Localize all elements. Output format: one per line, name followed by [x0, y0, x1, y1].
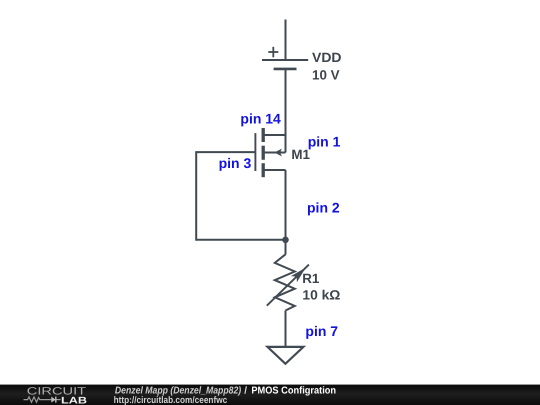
svg-text:10 V: 10 V [312, 67, 340, 82]
pin label pin 14 [240, 111, 281, 127]
body lead [265, 152, 286, 154]
wire: R1 bottom to ground [285, 311, 287, 348]
wire: battery - terminal down to M1 drain/body rail [285, 69, 287, 153]
channel segment bottom [262, 163, 265, 177]
svg-text:10 kΩ: 10 kΩ [302, 287, 340, 302]
CircuitLab logo: diode symbol [51, 397, 60, 403]
body arrow (points left) [274, 149, 282, 157]
transistor M1 (PMOS, 4-terminal) [255, 128, 285, 177]
svg-text:pin 2: pin 2 [307, 200, 340, 216]
CircuitLab logo: LAB wordmark [61, 395, 87, 405]
pin label pin 2 [307, 200, 340, 216]
wiper arrowhead [291, 268, 306, 283]
svg-text:VDD: VDD [312, 50, 342, 65]
footer title text: separator [244, 385, 247, 396]
node junction dot [282, 237, 289, 244]
source lead [265, 169, 286, 171]
svg-text:PMOS Configration: PMOS Configration [251, 385, 336, 396]
resistor R1 (variable, with wiper arrow) [267, 254, 309, 310]
wire: VDD top lead into battery + terminal [285, 20, 287, 61]
pin label pin 1 [308, 133, 341, 149]
plus sign [268, 51, 278, 53]
svg-text:http://circuitlab.com/ceenfwc: http://circuitlab.com/ceenfwc [114, 395, 228, 405]
long plate (+) [262, 59, 308, 61]
CircuitLab logo: resistor squiggle [24, 397, 52, 402]
ground [268, 347, 304, 364]
gate bar [254, 133, 256, 171]
label R1 [302, 271, 320, 286]
CircuitLab logo: CIRCUIT wordmark [27, 386, 87, 398]
label VDD [312, 50, 342, 65]
footer url text [114, 395, 228, 405]
channel segment middle [262, 146, 265, 160]
svg-text:M1: M1 [291, 147, 310, 162]
pin label pin 3 [219, 155, 252, 171]
battery V1 (VDD source) [262, 47, 308, 69]
wire: node to R1 top [285, 240, 287, 255]
wiper arrow line [267, 265, 309, 306]
drain lead [265, 134, 286, 136]
svg-text:pin 3: pin 3 [219, 155, 252, 171]
svg-text:R1: R1 [302, 271, 320, 286]
value 10 kOhm [302, 287, 340, 302]
svg-text:pin 7: pin 7 [305, 323, 338, 339]
wire: gate feedback loop (gate to node) [196, 152, 285, 240]
svg-text:pin 1: pin 1 [308, 133, 341, 149]
footer bar [0, 385, 540, 405]
footer title text: schematic name [251, 385, 336, 396]
wire: M1 source down to node [285, 170, 287, 240]
svg-text:/: / [244, 385, 247, 396]
value 10 V [312, 67, 340, 82]
label M1 [291, 147, 310, 162]
pin label pin 7 [305, 323, 338, 339]
svg-text:LAB: LAB [61, 395, 87, 405]
footer title text: author [115, 385, 242, 396]
short plate (-) [274, 68, 297, 71]
channel segment top [262, 128, 265, 142]
svg-text:pin 14: pin 14 [240, 111, 281, 127]
